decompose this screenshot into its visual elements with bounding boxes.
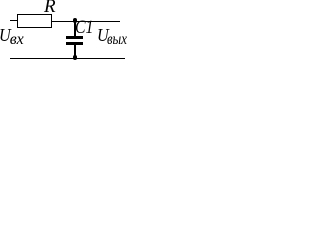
wire input left segment bbox=[10, 20, 17, 21]
wire bottom rail bbox=[10, 58, 125, 59]
label C1 bbox=[75, 18, 93, 37]
wire resistor to output bbox=[52, 21, 120, 22]
node top junction bbox=[73, 18, 78, 23]
wire capacitor top lead bbox=[74, 21, 76, 36]
label U_vx input voltage bbox=[0, 26, 11, 44]
capacitor C1 bottom plate bbox=[66, 42, 83, 45]
capacitor C1 top plate bbox=[66, 36, 83, 39]
wire capacitor bottom lead bbox=[74, 45, 76, 58]
label R bbox=[44, 0, 56, 16]
label U_vyx output voltage bbox=[97, 26, 109, 44]
node bottom junction bbox=[73, 55, 78, 60]
resistor R bbox=[17, 14, 52, 28]
